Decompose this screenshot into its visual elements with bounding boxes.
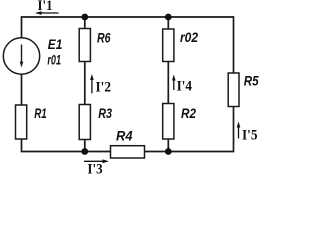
node junction bottom right: [165, 148, 172, 155]
current arrow I'5: [237, 122, 241, 139]
resistor R4: [111, 146, 145, 158]
current arrow I'2: [90, 74, 94, 93]
wire right branch upper: [233, 16, 235, 73]
wire branch3 lower: [167, 139, 169, 152]
node junction top right: [165, 14, 172, 21]
wire left branch middle: [21, 74, 23, 105]
svg-text:r02: r02: [180, 29, 198, 45]
svg-text:R6: R6: [97, 30, 111, 46]
svg-text:I'3: I'3: [87, 162, 102, 178]
svg-text:R3: R3: [98, 105, 112, 121]
resistor R6: [79, 29, 90, 62]
wire branch2 middle: [84, 62, 86, 105]
voltage source E1: [3, 38, 39, 74]
wire bottom rail right: [145, 151, 234, 153]
resistor R5: [228, 73, 239, 107]
resistor R2: [163, 104, 174, 140]
resistor R1: [16, 105, 27, 139]
svg-text:I'4: I'4: [177, 79, 192, 95]
wire left branch upper: [21, 16, 23, 38]
wire branch3 middle: [167, 62, 169, 104]
current arrow I'4: [172, 75, 176, 91]
svg-text:R4: R4: [116, 128, 133, 144]
wire branch3 upper: [167, 17, 169, 29]
E1 internal arrow: [20, 45, 24, 68]
wire top rail: [22, 16, 234, 18]
svg-text:I'5: I'5: [242, 128, 258, 144]
node junction bottom left: [81, 148, 88, 155]
wire right branch lower: [233, 107, 235, 153]
svg-text:R1: R1: [34, 105, 47, 121]
current arrow I'1: [35, 11, 59, 15]
resistor r02: [163, 29, 174, 62]
wire branch2 lower: [84, 140, 86, 152]
svg-text:I'1: I'1: [38, 0, 53, 14]
current arrow I'3: [84, 159, 109, 163]
resistor R3: [79, 105, 90, 140]
svg-text:R5: R5: [244, 72, 259, 88]
wire left branch lower: [22, 139, 111, 152]
svg-text:I'2: I'2: [96, 80, 112, 96]
wire branch2 upper: [84, 17, 86, 29]
svg-text:r01: r01: [47, 51, 61, 67]
svg-text:R2: R2: [181, 105, 196, 121]
svg-text:E1: E1: [48, 36, 63, 52]
node junction top left: [81, 14, 88, 21]
